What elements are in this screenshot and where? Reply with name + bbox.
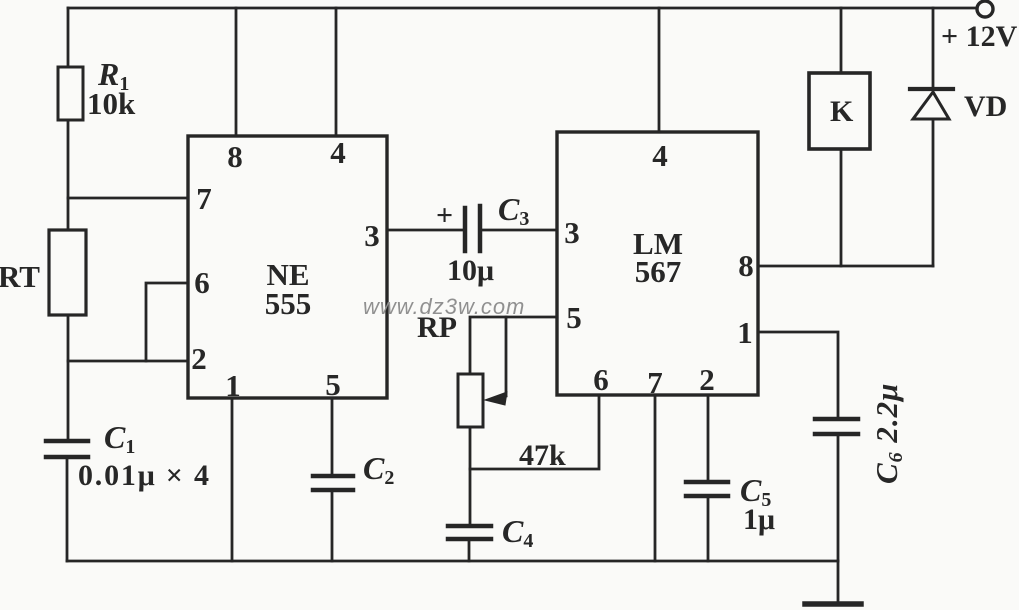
svg-text:C6 2.2μ: C6 2.2μ xyxy=(869,383,907,484)
svg-text:8: 8 xyxy=(227,139,243,174)
capacitor C2 xyxy=(313,474,353,479)
wire C5 to bottom rail xyxy=(707,498,710,561)
wire pin 5 to RP xyxy=(470,317,557,374)
wire RP bottom to C4 xyxy=(469,427,472,524)
wire NE555 pin 1 xyxy=(231,398,234,561)
svg-text:8: 8 xyxy=(738,248,754,283)
svg-text:6: 6 xyxy=(593,362,609,397)
wire C2 to bottom rail xyxy=(331,492,334,561)
svg-text:RT: RT xyxy=(0,259,40,294)
wire top +12V rail xyxy=(68,7,976,10)
wire NE555 pin 5 to C2 xyxy=(331,398,334,474)
ground xyxy=(837,561,840,604)
wire left rail top xyxy=(67,8,70,67)
svg-text:K: K xyxy=(830,95,854,128)
wire RP wiper xyxy=(505,317,508,395)
svg-text:7: 7 xyxy=(647,365,663,400)
svg-text:2: 2 xyxy=(699,362,715,397)
wire C1 to bottom rail xyxy=(66,459,69,561)
wire RT to C1 xyxy=(67,315,70,439)
wire R1 to pin7 junction xyxy=(67,120,70,230)
svg-text:www.dz3w.com: www.dz3w.com xyxy=(363,294,525,319)
svg-text:555: 555 xyxy=(265,286,312,321)
svg-text:3: 3 xyxy=(364,218,380,253)
wire pin 2 xyxy=(68,360,188,363)
op-amp U1 NE555 box xyxy=(188,136,387,398)
svg-text:+: + xyxy=(436,199,453,232)
svg-text:1: 1 xyxy=(737,315,753,350)
capacitor C1 xyxy=(46,439,88,444)
wire 47k to pin 6 xyxy=(470,395,599,469)
wire C4 to bottom rail xyxy=(468,541,471,561)
svg-text:4: 4 xyxy=(330,135,346,170)
wire LM pin 8 xyxy=(758,265,933,268)
wire LM pin 7 xyxy=(654,395,657,561)
svg-text:1: 1 xyxy=(225,368,241,403)
svg-text:5: 5 xyxy=(566,300,582,335)
wire LM pin 4 xyxy=(658,8,661,132)
wire pin 6 bracket xyxy=(146,283,188,361)
svg-text:VD: VD xyxy=(964,90,1007,123)
svg-text:4: 4 xyxy=(652,138,668,173)
svg-text:3: 3 xyxy=(564,215,580,250)
svg-text:2: 2 xyxy=(191,341,207,376)
resistor R1 xyxy=(58,67,83,120)
capacitor C6 xyxy=(815,417,858,422)
svg-text:+ 12V: + 12V xyxy=(941,20,1018,53)
svg-text:10μ: 10μ xyxy=(447,254,494,287)
svg-text:7: 7 xyxy=(196,181,212,216)
+12V terminal xyxy=(977,1,993,17)
wire LM pin 1 to C6 xyxy=(758,332,838,416)
op-amp U2 LM567 box xyxy=(557,132,758,395)
wire bottom rail xyxy=(67,560,838,563)
svg-text:6: 6 xyxy=(194,265,210,300)
capacitor C4 xyxy=(448,524,491,529)
capacitor C3 xyxy=(463,208,468,251)
svg-text:567: 567 xyxy=(635,254,682,289)
svg-text:47k: 47k xyxy=(519,439,566,472)
wire K top xyxy=(840,8,843,73)
wire pin 3 to C3 xyxy=(387,229,463,232)
wire C3 to LM pin 3 xyxy=(482,229,557,232)
svg-text:0.01μ × 4: 0.01μ × 4 xyxy=(78,459,211,492)
potentiometer RP xyxy=(458,374,483,427)
relay K box xyxy=(809,73,870,149)
wire pin 7 xyxy=(68,197,188,200)
wire pin 8 xyxy=(235,8,238,136)
diode VD xyxy=(932,8,935,88)
svg-text:5: 5 xyxy=(325,367,341,402)
wire C6 to bottom rail xyxy=(837,436,840,561)
svg-text:1μ: 1μ xyxy=(743,503,775,536)
svg-text:10k: 10k xyxy=(87,86,136,121)
wire LM pin 2 to C5 xyxy=(707,395,710,479)
capacitor C5 xyxy=(686,480,728,485)
wire K bottom xyxy=(840,149,843,266)
thermistor RT xyxy=(49,230,86,315)
wire pin 4 xyxy=(335,8,338,136)
